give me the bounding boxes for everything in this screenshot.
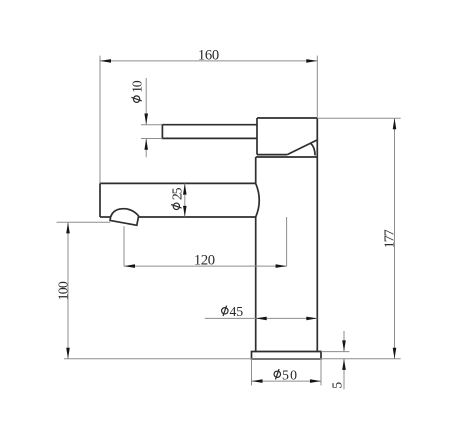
extension line phi10 top	[141, 124, 162, 126]
handle block left edge	[256, 118, 258, 155]
extension line phi50 right	[320, 359, 322, 385]
arrow phi50 right	[310, 379, 321, 383]
label 5	[329, 382, 344, 389]
arrow 120 left	[124, 264, 135, 268]
body centreline	[286, 217, 288, 266]
label 100	[56, 281, 71, 300]
svg-text:45: 45	[230, 304, 244, 319]
arrow phi45 right	[306, 317, 317, 321]
arrow phi10 lower	[144, 139, 148, 150]
extension line 120 left (below aerator)	[123, 226, 125, 266]
arrow 100 bottom	[66, 348, 70, 359]
extension line left of 160 dim	[99, 56, 101, 184]
extension line right of 160 dim	[316, 56, 318, 118]
dimension line phi10 upper	[145, 78, 147, 124]
svg-text:177: 177	[381, 229, 396, 248]
svg-text:25: 25	[169, 187, 184, 200]
svg-text:120: 120	[194, 253, 215, 269]
dimension line phi45	[205, 317, 318, 319]
body right edge	[316, 118, 318, 352]
extension line 100 top	[57, 221, 111, 223]
base plate	[252, 352, 322, 359]
dimension line 5 upper	[343, 331, 345, 351]
label phi50	[274, 367, 297, 382]
spout bottom edge left segment	[100, 216, 111, 218]
svg-text:50: 50	[282, 367, 297, 382]
label phi10	[130, 80, 145, 102]
lever handle bar	[162, 125, 257, 139]
label phi25	[169, 187, 184, 209]
dimension line 100	[67, 222, 69, 358]
arrow 160 left	[100, 59, 111, 63]
dimension line 5 lower	[343, 359, 345, 389]
arrow 120 right	[276, 264, 287, 268]
body left edge lower	[255, 217, 257, 352]
arrow 177 top	[393, 118, 397, 129]
svg-text:160: 160	[198, 48, 219, 64]
svg-text:5: 5	[329, 382, 344, 389]
arrow 5 upper	[342, 340, 346, 351]
arrow 160 right	[306, 59, 317, 63]
spout bottom edge right segment	[139, 216, 256, 218]
arrow phi50 left	[252, 379, 263, 383]
dimension line 177	[394, 118, 396, 359]
dimension line 160	[100, 60, 317, 62]
spout-body intersection arc	[256, 183, 260, 217]
dimension line phi50	[252, 380, 322, 382]
arrow phi25 bottom	[183, 206, 187, 217]
svg-text:10: 10	[130, 80, 145, 93]
body top edge	[256, 156, 317, 158]
dimension line phi10 lower	[145, 139, 147, 158]
extension line phi50 left	[251, 359, 253, 385]
label phi45	[222, 304, 244, 319]
spout top edge	[100, 182, 256, 184]
label 177	[381, 229, 396, 248]
arrow phi45 left	[256, 317, 267, 321]
dimension line 120	[124, 265, 287, 267]
arrow 177 bottom	[393, 348, 397, 359]
body left edge upper	[255, 157, 257, 183]
extension line 177 top	[317, 117, 400, 119]
counter reference line	[64, 358, 401, 360]
svg-text:100: 100	[56, 281, 71, 300]
extension line phi10 bottom	[141, 138, 162, 140]
arrow 5 lower	[342, 359, 346, 370]
extension line 5 top	[321, 351, 349, 353]
handle block top edge	[257, 117, 317, 119]
handle block bottom edge	[257, 154, 287, 156]
arrow 100 top	[66, 222, 70, 233]
dimension line phi25	[184, 184, 186, 217]
aerator outlet nozzle	[110, 209, 139, 226]
handle block corner arc	[311, 143, 316, 155]
arrow phi25 top	[183, 184, 187, 195]
spout left end	[99, 183, 101, 217]
arrow phi10 upper	[144, 114, 148, 125]
handle block slanted underside	[287, 140, 317, 155]
